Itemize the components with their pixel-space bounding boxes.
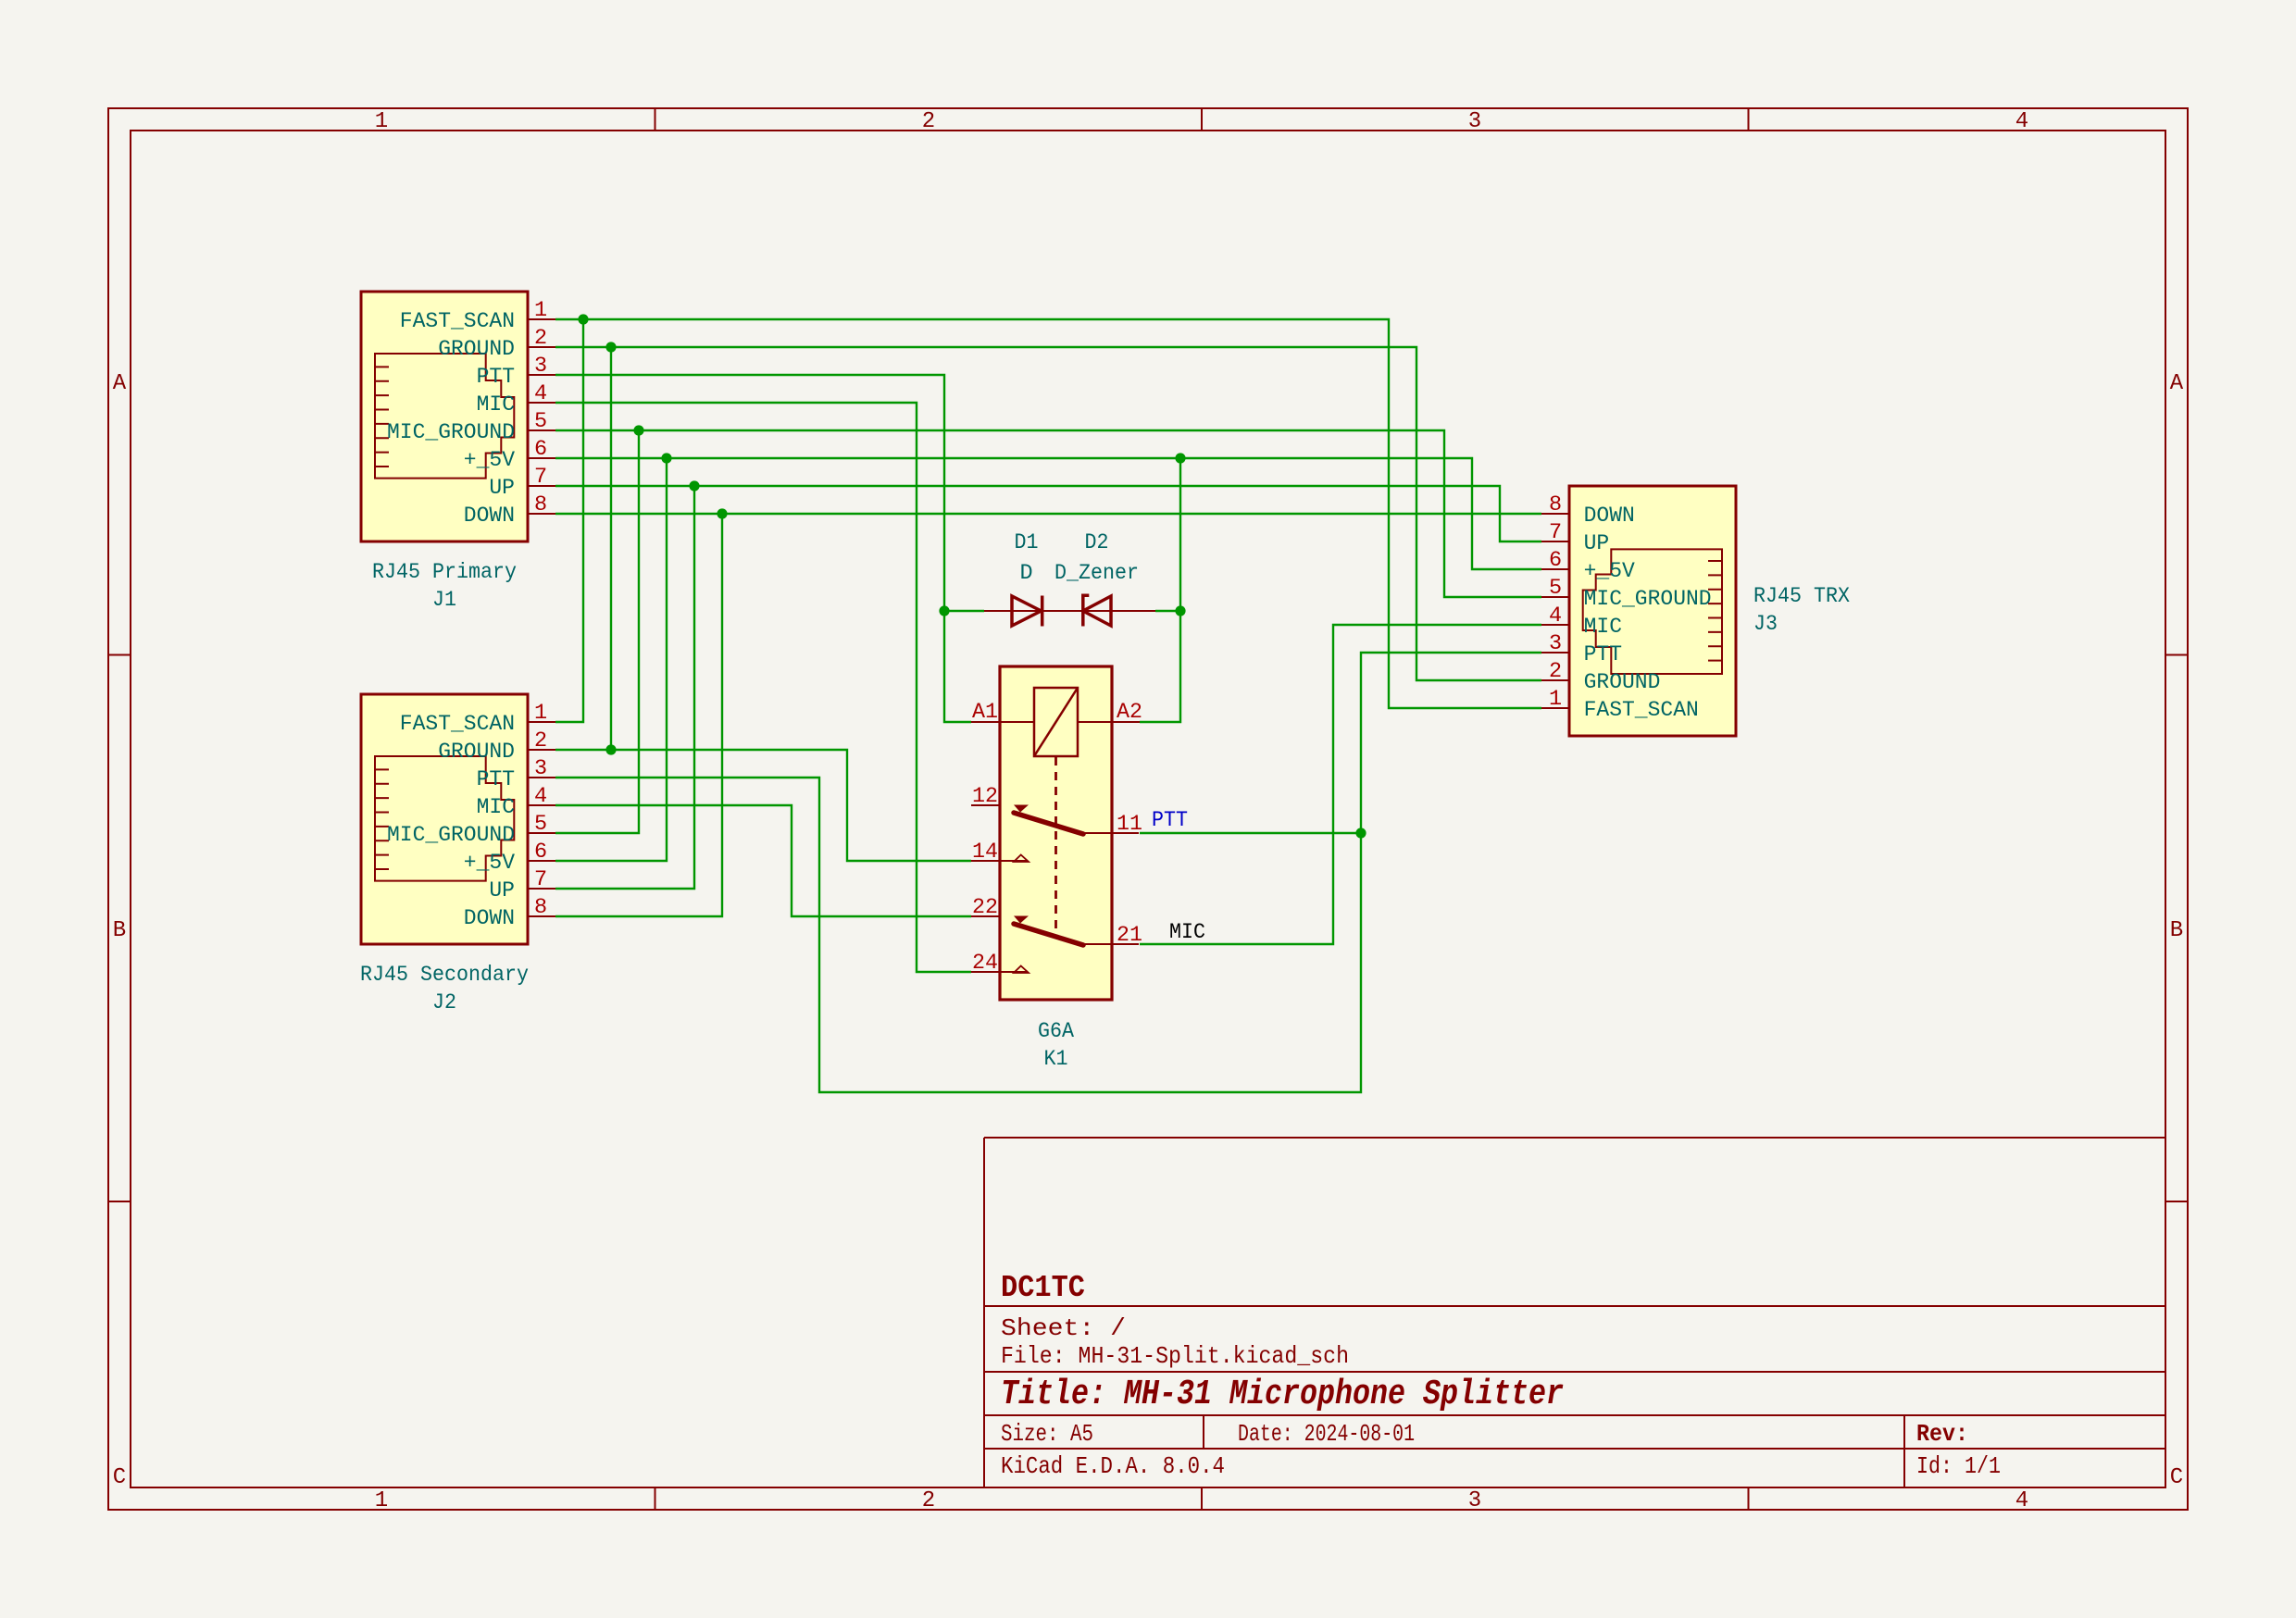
svg-text:1: 1 bbox=[375, 1488, 388, 1513]
svg-text:3: 3 bbox=[1468, 109, 1481, 134]
svg-text:D: D bbox=[1019, 561, 1032, 586]
svg-text:C: C bbox=[113, 1465, 126, 1490]
junction PTT node bbox=[1355, 828, 1366, 838]
svg-text:MIC: MIC bbox=[1584, 615, 1622, 640]
connector J1 RJ45 Primary bbox=[361, 292, 555, 613]
diode D1 bbox=[984, 530, 1069, 627]
svg-text:B: B bbox=[2170, 918, 2183, 943]
svg-text:GROUND: GROUND bbox=[438, 740, 515, 765]
svg-text:22: 22 bbox=[972, 895, 998, 920]
svg-text:K1: K1 bbox=[1044, 1047, 1068, 1072]
svg-text:1: 1 bbox=[375, 109, 388, 134]
svg-text:4: 4 bbox=[1549, 604, 1562, 629]
svg-text:+_5V: +_5V bbox=[1584, 559, 1635, 584]
wire +_5V drop to J2.6 bbox=[555, 458, 667, 861]
svg-text:MIC: MIC bbox=[477, 795, 515, 820]
svg-text:RJ45 TRX: RJ45 TRX bbox=[1753, 584, 1850, 609]
svg-text:+_5V: +_5V bbox=[464, 851, 515, 876]
svg-text:MIC_GROUND: MIC_GROUND bbox=[387, 823, 515, 848]
svg-text:PTT: PTT bbox=[1584, 642, 1622, 667]
zener diode D2 bbox=[1054, 530, 1155, 627]
svg-text:A2: A2 bbox=[1117, 700, 1142, 725]
wire DOWN drop to J2.8 bbox=[555, 514, 722, 916]
svg-text:PTT: PTT bbox=[1152, 808, 1188, 833]
wire GROUND J1.2 to J3.2 bbox=[555, 347, 1541, 680]
svg-text:DOWN: DOWN bbox=[1584, 504, 1635, 529]
svg-text:A: A bbox=[113, 371, 127, 396]
svg-text:2: 2 bbox=[922, 109, 935, 134]
svg-text:MIC: MIC bbox=[1169, 920, 1205, 945]
relay K1 reference and value labels bbox=[1038, 1019, 1075, 1072]
svg-text:Id: 1/1: Id: 1/1 bbox=[1916, 1452, 2001, 1480]
svg-text:FAST_SCAN: FAST_SCAN bbox=[400, 712, 515, 737]
svg-text:A1: A1 bbox=[972, 700, 998, 725]
svg-text:3: 3 bbox=[1549, 631, 1562, 656]
wire GROUND drop to J2.2 bbox=[610, 347, 612, 750]
svg-text:2: 2 bbox=[922, 1488, 935, 1513]
svg-text:D2: D2 bbox=[1085, 530, 1109, 555]
wire UP drop to J2.7 bbox=[555, 486, 694, 889]
wire FAST_SCAN drop to J2.1 bbox=[555, 319, 583, 722]
wire +_5V J1.6 to J3.6 bbox=[555, 458, 1541, 569]
svg-text:4: 4 bbox=[2015, 1488, 2028, 1513]
svg-text:5: 5 bbox=[1549, 576, 1562, 601]
svg-text:B: B bbox=[113, 918, 126, 943]
junction GROUND at J2.2 bbox=[605, 744, 616, 754]
svg-text:J3: J3 bbox=[1753, 612, 1778, 637]
svg-text:4: 4 bbox=[534, 784, 547, 809]
title block bbox=[984, 1138, 2165, 1487]
junction +_5V at J1.6 bbox=[661, 453, 671, 463]
svg-text:1: 1 bbox=[534, 298, 547, 323]
svg-text:3: 3 bbox=[534, 756, 547, 781]
svg-text:Sheet: /: Sheet: / bbox=[1001, 1314, 1126, 1342]
svg-text:Size: A5: Size: A5 bbox=[1001, 1420, 1093, 1448]
svg-text:RJ45 Secondary: RJ45 Secondary bbox=[360, 963, 529, 988]
svg-text:J1: J1 bbox=[432, 588, 456, 613]
wire PTT J2.3 to PTT node bbox=[555, 653, 1541, 1092]
svg-text:24: 24 bbox=[972, 951, 998, 976]
svg-text:2: 2 bbox=[534, 728, 547, 753]
svg-text:J2: J2 bbox=[432, 990, 456, 1015]
svg-text:FAST_SCAN: FAST_SCAN bbox=[1584, 698, 1699, 723]
wire DOWN J1.8 to J3.8 bbox=[555, 513, 1541, 515]
wire GROUND J2.2 to relay pin 14 bbox=[555, 750, 971, 861]
svg-text:21: 21 bbox=[1117, 923, 1142, 948]
svg-text:FAST_SCAN: FAST_SCAN bbox=[400, 309, 515, 334]
svg-text:4: 4 bbox=[534, 381, 547, 406]
relay K1 pole 1 (pins 12/11/14) bbox=[971, 784, 1142, 865]
svg-text:+_5V: +_5V bbox=[464, 448, 515, 473]
wire MIC_GROUND J1.5 to J3.5 bbox=[555, 430, 1541, 597]
svg-text:RJ45 Primary: RJ45 Primary bbox=[372, 560, 517, 585]
junction GROUND at J1.2 bbox=[605, 342, 616, 352]
svg-text:1: 1 bbox=[534, 701, 547, 726]
svg-text:C: C bbox=[2170, 1465, 2183, 1490]
svg-text:8: 8 bbox=[1549, 492, 1562, 517]
svg-text:MIC_GROUND: MIC_GROUND bbox=[387, 420, 515, 445]
svg-text:Date: 2024-08-01: Date: 2024-08-01 bbox=[1238, 1420, 1415, 1448]
svg-text:3: 3 bbox=[1468, 1488, 1481, 1513]
svg-text:6: 6 bbox=[534, 437, 547, 462]
connector J3 RJ45 TRX bbox=[1541, 486, 1850, 736]
svg-text:6: 6 bbox=[1549, 548, 1562, 573]
svg-text:DOWN: DOWN bbox=[464, 906, 515, 931]
junction MIC_GROUND at J1.5 bbox=[633, 425, 643, 435]
svg-text:7: 7 bbox=[534, 867, 547, 892]
junction UP at J1.7 bbox=[689, 480, 699, 491]
svg-text:1: 1 bbox=[1549, 687, 1562, 712]
svg-text:Rev:: Rev: bbox=[1916, 1420, 1968, 1448]
wire MIC J2.4 to relay pin 22 bbox=[555, 805, 971, 916]
wire D2 to A2 drop bbox=[1155, 610, 1180, 612]
svg-text:KiCad E.D.A. 8.0.4: KiCad E.D.A. 8.0.4 bbox=[1001, 1452, 1225, 1480]
relay K1 G6A body bbox=[1000, 666, 1112, 1000]
svg-text:UP: UP bbox=[489, 878, 515, 903]
wire FAST_SCAN J1.1 to J3.1 bbox=[555, 319, 1541, 708]
svg-text:UP: UP bbox=[489, 476, 515, 501]
svg-text:G6A: G6A bbox=[1038, 1019, 1075, 1044]
wire diode bridge to A1 drop bbox=[944, 610, 984, 612]
wire relay pin 21 MIC to J3.4 bbox=[1140, 625, 1541, 944]
svg-text:MIC: MIC bbox=[477, 392, 515, 417]
svg-text:11: 11 bbox=[1117, 812, 1142, 837]
wire UP J1.7 to J3.7 bbox=[555, 486, 1541, 541]
svg-text:D_Zener: D_Zener bbox=[1054, 561, 1139, 586]
svg-text:PTT: PTT bbox=[477, 365, 515, 390]
svg-text:3: 3 bbox=[534, 354, 547, 379]
wire MIC J1.4 to relay pin 24 bbox=[555, 403, 971, 972]
relay K1 pin A1 bbox=[971, 700, 1034, 725]
svg-text:8: 8 bbox=[534, 895, 547, 920]
svg-text:A: A bbox=[2170, 371, 2184, 396]
svg-text:7: 7 bbox=[1549, 520, 1562, 545]
svg-text:14: 14 bbox=[972, 840, 998, 865]
svg-text:File: MH-31-Split.kicad_sch: File: MH-31-Split.kicad_sch bbox=[1001, 1342, 1349, 1370]
svg-text:8: 8 bbox=[534, 492, 547, 517]
svg-text:UP: UP bbox=[1584, 531, 1610, 556]
svg-text:MIC_GROUND: MIC_GROUND bbox=[1584, 587, 1712, 612]
wire +_5V drop to relay A2 and D2 bbox=[1140, 458, 1180, 722]
svg-text:Title: MH-31 Microphone Splitt: Title: MH-31 Microphone Splitter bbox=[1001, 1375, 1564, 1414]
svg-text:7: 7 bbox=[534, 465, 547, 490]
wire PTT J1.3 to relay A1 bbox=[555, 375, 971, 722]
svg-text:DC1TC: DC1TC bbox=[1001, 1271, 1085, 1305]
junction DOWN at J1.8 bbox=[717, 508, 727, 518]
svg-text:4: 4 bbox=[2015, 109, 2028, 134]
connector J2 RJ45 Secondary bbox=[360, 694, 555, 1015]
junction D1 anode / A1 bbox=[939, 605, 949, 616]
relay K1 pin A2 bbox=[1078, 700, 1142, 725]
svg-text:D1: D1 bbox=[1015, 530, 1039, 555]
wire relay pin 11 to PTT node bbox=[1140, 832, 1361, 834]
relay K1 coil bbox=[1034, 688, 1078, 933]
junction FAST_SCAN at J1.1 bbox=[578, 314, 588, 324]
svg-text:PTT: PTT bbox=[477, 767, 515, 792]
relay K1 pole 2 (pins 22/21/24) bbox=[971, 895, 1142, 976]
svg-text:GROUND: GROUND bbox=[1584, 670, 1661, 695]
wire MIC_GROUND drop to J2.5 bbox=[555, 430, 639, 833]
svg-text:5: 5 bbox=[534, 409, 547, 434]
svg-text:6: 6 bbox=[534, 840, 547, 865]
junction +_5V to A2 drop bbox=[1175, 453, 1185, 463]
svg-text:2: 2 bbox=[1549, 659, 1562, 684]
svg-text:5: 5 bbox=[534, 812, 547, 837]
sheet border frame bbox=[108, 108, 2188, 1513]
svg-text:GROUND: GROUND bbox=[438, 337, 515, 362]
svg-text:DOWN: DOWN bbox=[464, 504, 515, 529]
svg-text:12: 12 bbox=[972, 784, 998, 809]
junction D2 cathode / A2 bbox=[1175, 605, 1185, 616]
svg-text:2: 2 bbox=[534, 326, 547, 351]
